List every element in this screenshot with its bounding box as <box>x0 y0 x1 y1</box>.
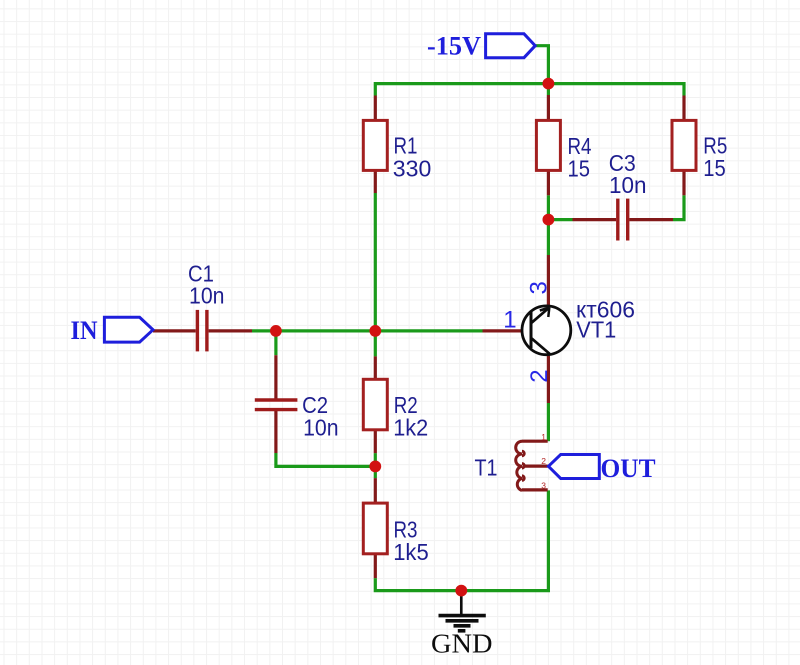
svg-text:OUT: OUT <box>601 454 656 483</box>
svg-text:15: 15 <box>703 155 726 181</box>
svg-text:VT1: VT1 <box>576 317 616 343</box>
svg-text:2: 2 <box>541 456 546 466</box>
svg-text:1: 1 <box>503 306 516 333</box>
svg-text:1k5: 1k5 <box>393 539 429 565</box>
svg-text:15: 15 <box>568 156 591 182</box>
svg-text:-15V: -15V <box>427 32 481 61</box>
svg-text:IN: IN <box>71 316 98 345</box>
svg-text:GND: GND <box>431 629 493 659</box>
svg-text:3: 3 <box>526 281 553 294</box>
svg-text:10n: 10n <box>303 414 339 440</box>
svg-text:T1: T1 <box>475 454 498 480</box>
svg-text:1: 1 <box>541 432 546 442</box>
svg-text:10n: 10n <box>189 282 225 308</box>
svg-text:3: 3 <box>541 480 546 490</box>
svg-text:330: 330 <box>393 156 432 182</box>
svg-text:2: 2 <box>526 369 553 382</box>
svg-text:10n: 10n <box>609 172 647 198</box>
svg-text:1k2: 1k2 <box>393 414 428 440</box>
